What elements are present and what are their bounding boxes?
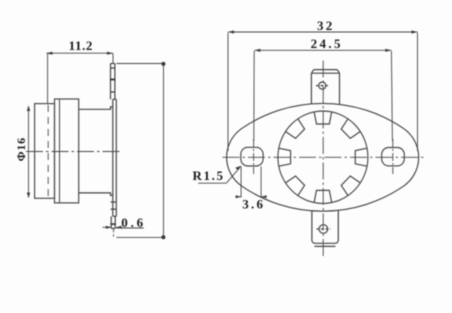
dimension phi16 line	[27, 105, 30, 198]
notch NW	[286, 119, 305, 139]
dimension 24.5	[254, 49, 393, 141]
cap hidden dashed line	[47, 105, 49, 198]
right bracket extension	[116, 62, 165, 239]
notch S	[314, 190, 332, 202]
dimension 3.6	[236, 167, 267, 199]
svg-text:11.2: 11.2	[69, 38, 93, 53]
notch E	[355, 148, 367, 166]
right hole vertical centerline	[392, 139, 394, 174]
flange plate edge-on	[113, 99, 117, 216]
svg-text:32: 32	[317, 18, 334, 33]
body circle	[278, 111, 368, 203]
top terminal hole	[319, 82, 326, 89]
bottom terminal	[312, 210, 338, 246]
notch W	[279, 148, 291, 166]
flange outline	[227, 103, 419, 211]
notch SW	[286, 176, 305, 196]
can body bottom edge	[79, 193, 113, 196]
can body top edge	[79, 107, 113, 109]
svg-text:0.6: 0.6	[121, 215, 146, 230]
cap skirt	[55, 99, 79, 203]
can crimp line over skirt	[59, 99, 61, 203]
bottom terminal hole	[319, 225, 328, 234]
left mounting hole	[241, 147, 263, 166]
side view horizontal centerline	[26, 151, 122, 153]
top terminal edge-on	[110, 64, 116, 100]
vertical centerline front view	[322, 61, 324, 258]
cap front face	[35, 104, 55, 199]
notch NE	[341, 119, 360, 139]
top terminal	[311, 70, 339, 105]
notch N	[314, 112, 332, 124]
svg-text:Φ16: Φ16	[14, 137, 28, 161]
right mounting hole	[382, 148, 405, 166]
bottom terminal edge-on	[110, 202, 116, 228]
notch SE	[341, 176, 360, 196]
dimension 11.2 line	[46, 52, 113, 105]
dimension 32	[228, 30, 418, 151]
bottom terminal centerline stub	[113, 228, 115, 236]
svg-text:24.5: 24.5	[311, 36, 343, 51]
left hole vertical centerline	[253, 139, 255, 174]
horizontal centerline front view	[223, 156, 425, 158]
svg-text:3.6: 3.6	[242, 196, 265, 211]
dimension 0.6 arrows	[103, 226, 144, 229]
R1.5 label	[193, 166, 242, 184]
svg-text:R1.5: R1.5	[193, 168, 225, 183]
